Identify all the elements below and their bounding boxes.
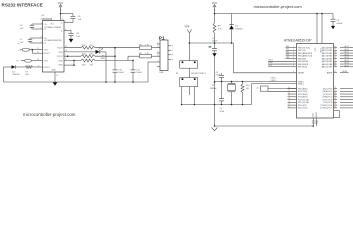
svg-text:XTAL 2: XTAL 2 — [271, 79, 277, 82]
svg-text:ADC1: ADC1 — [345, 48, 350, 51]
svg-text:R1IN: R1IN — [58, 52, 63, 54]
svg-text:21: 21 — [288, 106, 290, 108]
svg-text:PB4 (SS): PB4 (SS) — [298, 58, 306, 60]
svg-text:R2IN: R2IN — [58, 65, 63, 67]
svg-text:(TOSC2) PC7: (TOSC2) PC7 — [320, 108, 332, 110]
svg-text:1.7k: 1.7k — [145, 53, 149, 55]
svg-text:23: 23 — [334, 90, 336, 92]
svg-text:22pF: 22pF — [216, 75, 221, 77]
svg-text:100nF: 100nF — [118, 72, 124, 74]
svg-text:R2IN: R2IN — [58, 60, 63, 62]
svg-text:XTAL 1: XTAL 1 — [271, 76, 277, 79]
svg-text:P2: P2 — [19, 50, 21, 52]
svg-text:C2-: C2- — [44, 43, 47, 45]
svg-text:ADC2: ADC2 — [345, 51, 350, 54]
svg-text:ATMEGA8535-DIP: ATMEGA8535-DIP — [284, 38, 312, 42]
svg-text:26: 26 — [334, 98, 336, 100]
svg-text:16: 16 — [288, 92, 290, 94]
svg-text:PB3: PB3 — [286, 54, 289, 56]
svg-text:6: 6 — [172, 46, 173, 48]
svg-text:J3: J3 — [256, 87, 258, 89]
svg-text:T1IN: T1IN — [44, 50, 49, 52]
svg-text:(TDI) PC5: (TDI) PC5 — [323, 102, 332, 104]
svg-text:RED: RED — [101, 58, 106, 60]
svg-text:29: 29 — [334, 106, 336, 108]
svg-text:PB2: PB2 — [286, 51, 289, 53]
svg-text:PD2 (INT0): PD2 (INT0) — [298, 94, 308, 96]
svg-text:DM TACT-SPST-2: DM TACT-SPST-2 — [191, 72, 206, 75]
svg-text:(ADC6) PA6: (ADC6) PA6 — [322, 63, 332, 66]
svg-text:(TMS) PC3: (TMS) PC3 — [323, 97, 332, 99]
svg-text:(ADC1) PA1: (ADC1) PA1 — [322, 49, 332, 52]
svg-text:PD0 (RXD): PD0 (RXD) — [298, 88, 308, 90]
svg-text:22pF: 22pF — [219, 111, 224, 113]
svg-text:C3: C3 — [212, 38, 214, 40]
svg-text:GND: GND — [313, 113, 315, 118]
svg-text:PB0 (T0 XCK): PB0 (T0 XCK) — [298, 47, 310, 49]
svg-text:PD5 (OC1A): PD5 (OC1A) — [298, 101, 309, 104]
svg-text:T2IN: T2IN — [44, 61, 49, 63]
svg-text:(SCL) PC0: (SCL) PC0 — [323, 88, 332, 90]
svg-text:22: 22 — [334, 87, 336, 89]
svg-text:100nF: 100nF — [212, 41, 218, 43]
svg-text:(ADC5) PA5: (ADC5) PA5 — [322, 60, 332, 63]
svg-text:100nF: 100nF — [136, 72, 142, 74]
svg-text:VOLTAGE DOUBLER: VOLTAGE DOUBLER — [44, 26, 62, 29]
svg-text:ADC7: ADC7 — [345, 64, 350, 67]
svg-text:(TOSC1) PC6: (TOSC1) PC6 — [320, 105, 332, 107]
svg-text:16: 16 — [62, 19, 64, 21]
svg-text:PB5 (MOSI): PB5 (MOSI) — [298, 61, 309, 63]
svg-text:GND: GND — [52, 70, 57, 72]
svg-text:3: 3 — [157, 51, 158, 53]
svg-text:VPP: VPP — [185, 26, 190, 29]
svg-text:ADC6: ADC6 — [345, 62, 350, 65]
svg-text:MAX232: MAX232 — [42, 17, 53, 21]
svg-text:PB1: PB1 — [286, 49, 289, 51]
svg-text:ADC5: ADC5 — [345, 59, 350, 62]
svg-text:100nF: 100nF — [336, 23, 343, 25]
svg-text:1: 1 — [157, 42, 158, 44]
svg-text:1uF: 1uF — [78, 19, 82, 21]
svg-text:(ADC3) PA3: (ADC3) PA3 — [322, 55, 332, 58]
svg-text:15: 15 — [56, 75, 58, 77]
svg-text:9: 9 — [172, 59, 173, 61]
svg-text:C1-: C1- — [44, 29, 47, 31]
svg-text:16MHz: 16MHz — [210, 88, 217, 90]
svg-text:P1: P1 — [159, 36, 165, 42]
svg-text:5: 5 — [157, 60, 158, 62]
svg-text:V+: V+ — [60, 22, 62, 24]
svg-text:microcontroller-project.com: microcontroller-project.com — [254, 4, 303, 9]
svg-text:2: 2 — [157, 46, 158, 48]
svg-text:PB0: PB0 — [286, 46, 289, 48]
svg-text:(ADC4) PA4: (ADC4) PA4 — [322, 57, 332, 60]
svg-text:25: 25 — [334, 95, 336, 97]
svg-text:27: 27 — [334, 101, 336, 103]
svg-text:RESET: RESET — [298, 73, 305, 75]
svg-text:14: 14 — [288, 87, 290, 89]
svg-text:37: 37 — [334, 54, 336, 56]
svg-text:8: 8 — [172, 55, 173, 57]
svg-text:(TCK) PC2: (TCK) PC2 — [323, 94, 332, 96]
svg-text:1uF: 1uF — [76, 36, 80, 38]
svg-text:PD1 (TXD): PD1 (TXD) — [298, 91, 308, 93]
svg-text:(ADC0) PA0: (ADC0) PA0 — [322, 46, 332, 49]
svg-text:39: 39 — [334, 49, 336, 51]
svg-text:microcontroller-project.com: microcontroller-project.com — [23, 112, 76, 117]
svg-text:20: 20 — [288, 104, 290, 106]
svg-text:35: 35 — [334, 60, 336, 62]
svg-text:C2+: C2+ — [44, 38, 47, 40]
svg-text:PB7 (SCK): PB7 (SCK) — [298, 67, 308, 69]
svg-text:2: 2 — [65, 21, 66, 23]
svg-text:ADC3: ADC3 — [345, 53, 350, 56]
svg-text:P2: P2 — [18, 44, 20, 46]
svg-text:7: 7 — [172, 50, 173, 52]
svg-text:1N4148: 1N4148 — [12, 74, 20, 76]
svg-text:17: 17 — [288, 95, 290, 97]
svg-text:C1+: C1+ — [44, 24, 47, 26]
svg-text:24: 24 — [334, 92, 336, 94]
svg-text:28: 28 — [334, 104, 336, 106]
svg-text:PB2 (AIN0 INT2): PB2 (AIN0 INT2) — [298, 52, 313, 55]
svg-text:1M: 1M — [246, 88, 249, 90]
svg-text:PD4 (OC1B): PD4 (OC1B) — [298, 99, 309, 101]
svg-text:1.7k: 1.7k — [145, 44, 149, 46]
svg-text:32: 32 — [334, 71, 336, 73]
svg-text:R2OUT: R2OUT — [44, 67, 51, 69]
svg-text:40: 40 — [334, 46, 336, 48]
svg-text:(ADC7) PA7: (ADC7) PA7 — [322, 66, 332, 69]
svg-text:MOSI: MOSI — [269, 60, 274, 62]
svg-text:T1OUT: T1OUT — [57, 48, 64, 50]
svg-text:33: 33 — [334, 65, 336, 67]
svg-text:19: 19 — [288, 101, 290, 103]
svg-text:P3: P3 — [16, 61, 18, 63]
svg-text:PD3 (INT1): PD3 (INT1) — [298, 97, 308, 99]
svg-text:VCC: VCC — [50, 23, 55, 25]
svg-text:36: 36 — [334, 57, 336, 59]
svg-text:(ADC2) PA2: (ADC2) PA2 — [322, 52, 332, 55]
svg-text:4: 4 — [157, 55, 158, 57]
svg-text:RS232 INTERFACE: RS232 INTERFACE — [2, 2, 43, 7]
svg-text:38: 38 — [334, 51, 336, 53]
svg-text:PB6 (MISO): PB6 (MISO) — [298, 64, 309, 66]
svg-text:XTAL1: XTAL1 — [298, 82, 304, 85]
svg-text:PB3 (AIN1 OC0): PB3 (AIN1 OC0) — [298, 55, 312, 58]
svg-text:ADC4: ADC4 — [345, 56, 350, 59]
svg-text:MISO: MISO — [269, 62, 274, 64]
svg-text:R1OUT: R1OUT — [44, 53, 51, 55]
svg-text:15: 15 — [288, 90, 290, 92]
svg-text:T2OUT: T2OUT — [57, 56, 64, 58]
svg-text:34: 34 — [334, 62, 336, 64]
svg-text:ADC0: ADC0 — [345, 45, 350, 48]
svg-text:6: 6 — [65, 29, 66, 31]
svg-text:PB1 (T1): PB1 (T1) — [298, 50, 306, 52]
svg-text:PD6 (ICP): PD6 (ICP) — [298, 105, 307, 107]
svg-text:AGND: AGND — [315, 111, 318, 117]
svg-text:(SDA) PC1: (SDA) PC1 — [323, 90, 332, 93]
svg-text:18: 18 — [288, 98, 290, 100]
svg-text:1N4148: 1N4148 — [235, 28, 243, 30]
svg-text:PB4: PB4 — [286, 57, 289, 59]
svg-text:(TDO) PC4: (TDO) PC4 — [323, 99, 332, 101]
svg-text:AREF: AREF — [327, 71, 333, 74]
svg-text:PD7 (OC2): PD7 (OC2) — [298, 108, 308, 110]
svg-text:AREF: AREF — [343, 70, 348, 73]
